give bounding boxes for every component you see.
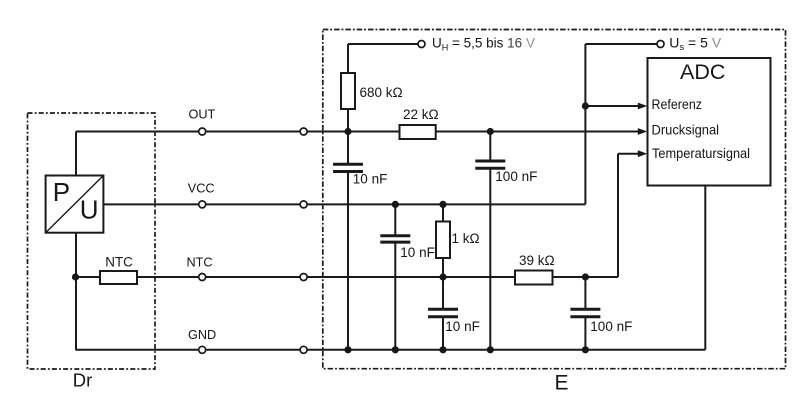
wire 100nF column x585 lower <box>584 317 586 350</box>
sensor cell P/U box <box>46 176 104 233</box>
capacitor 10nF at x348 <box>333 164 363 171</box>
arrow into ADC Temperatursignal <box>638 150 647 157</box>
svg-text:NTC: NTC <box>187 256 213 270</box>
wire cap column x395 upper <box>394 204 396 235</box>
pin OUT right connector <box>300 128 307 135</box>
arrow into ADC Drucksignal <box>638 128 647 135</box>
wire Referenz feed <box>585 105 638 107</box>
wire Temperatursignal horizontal <box>618 153 639 155</box>
svg-text:10 nF: 10 nF <box>445 319 480 334</box>
svg-text:Dr: Dr <box>73 369 93 390</box>
svg-text:ADC: ADC <box>680 60 725 84</box>
sensor box Dr (dashed) <box>28 113 156 369</box>
pin VCC right connector <box>300 201 307 208</box>
node GND x395 <box>392 346 399 353</box>
pin GND right connector <box>300 346 307 353</box>
resistor 680k <box>341 73 355 109</box>
capacitor 10nF at x443 <box>428 309 458 317</box>
node Referenz x585 <box>582 102 589 109</box>
wire OUT vertical drop in Dr <box>75 132 77 176</box>
svg-text:U: U <box>80 195 99 225</box>
wire Us horizontal <box>585 43 660 45</box>
capacitor 100nF at x585 <box>570 309 600 317</box>
node VCC x443 <box>439 201 446 208</box>
wire ADC ground drop <box>704 186 706 350</box>
node NTC x443 <box>439 273 446 280</box>
node GND x585 <box>582 346 589 353</box>
pin VCC left connector <box>199 201 206 208</box>
resistor NTC <box>100 271 137 284</box>
ECU box E (dashed) <box>323 30 786 369</box>
node NTC x585 <box>582 273 589 280</box>
svg-text:UH = 5,5 bis 16 V: UH = 5,5 bis 16 V <box>432 36 535 53</box>
wire 1k column lower <box>442 317 444 350</box>
wire Temperatursignal vertical <box>617 154 619 277</box>
wire P/U bottom to GND corner <box>75 233 77 350</box>
wire VCC row <box>103 203 585 205</box>
wire OUT row <box>76 131 639 133</box>
wire 100nF column x490 lower <box>489 168 491 349</box>
svg-text:Referenz: Referenz <box>652 96 703 112</box>
wire UH tap vertical <box>347 44 349 164</box>
capacitor 100nF at x490 <box>475 161 505 168</box>
node OUT x348 <box>344 128 351 135</box>
svg-text:100 nF: 100 nF <box>590 319 632 334</box>
node VCC x395 <box>392 201 399 208</box>
svg-text:Drucksignal: Drucksignal <box>652 121 720 137</box>
node NTC junction in Dr <box>72 273 79 280</box>
pin GND left connector <box>199 346 206 353</box>
ADC block U1 <box>648 58 771 186</box>
svg-text:680 kΩ: 680 kΩ <box>360 85 403 100</box>
svg-text:Us = 5 V: Us = 5 V <box>669 34 722 53</box>
svg-text:10 nF: 10 nF <box>400 245 435 260</box>
svg-text:Temperatursignal: Temperatursignal <box>652 145 750 161</box>
pin NTC right connector <box>300 274 307 281</box>
capacitor 10nF at x395 <box>380 236 410 242</box>
svg-text:100 nF: 100 nF <box>495 169 537 184</box>
svg-text:NTC: NTC <box>105 255 133 270</box>
wire cap column x395 lower <box>394 242 396 350</box>
svg-text:GND: GND <box>188 328 216 342</box>
resistor 1k <box>436 222 450 259</box>
wire NTC row <box>76 276 619 278</box>
svg-text:E: E <box>555 371 569 394</box>
wire GND row <box>76 349 706 351</box>
wire NTC junction to 100nF upper <box>584 277 586 309</box>
resistor 22k <box>400 125 436 139</box>
node GND x490 <box>487 346 494 353</box>
pin NTC left connector <box>199 274 206 281</box>
wire 680k column below cap <box>347 172 349 350</box>
wire Us vertical <box>584 44 586 204</box>
svg-text:22 kΩ: 22 kΩ <box>403 107 439 122</box>
terminal UH <box>418 41 425 48</box>
svg-text:1 kΩ: 1 kΩ <box>452 231 480 246</box>
node GND x348 <box>344 346 351 353</box>
terminal Us <box>657 41 664 48</box>
node OUT x490 <box>487 128 494 135</box>
svg-text:39 kΩ: 39 kΩ <box>519 253 555 268</box>
wire 100nF column x490 upper <box>489 132 491 162</box>
wire 1k column upper <box>442 204 444 309</box>
svg-text:VCC: VCC <box>188 182 215 196</box>
arrow into ADC Referenz <box>638 103 647 110</box>
resistor 39k <box>515 271 553 285</box>
svg-text:OUT: OUT <box>189 108 216 122</box>
svg-text:10 nF: 10 nF <box>353 171 388 186</box>
node GND x443 <box>439 346 446 353</box>
wire UH horizontal <box>348 43 422 45</box>
svg-text:P: P <box>53 177 70 207</box>
pin OUT left connector <box>199 128 206 135</box>
sensor cell diagonal <box>46 176 104 233</box>
